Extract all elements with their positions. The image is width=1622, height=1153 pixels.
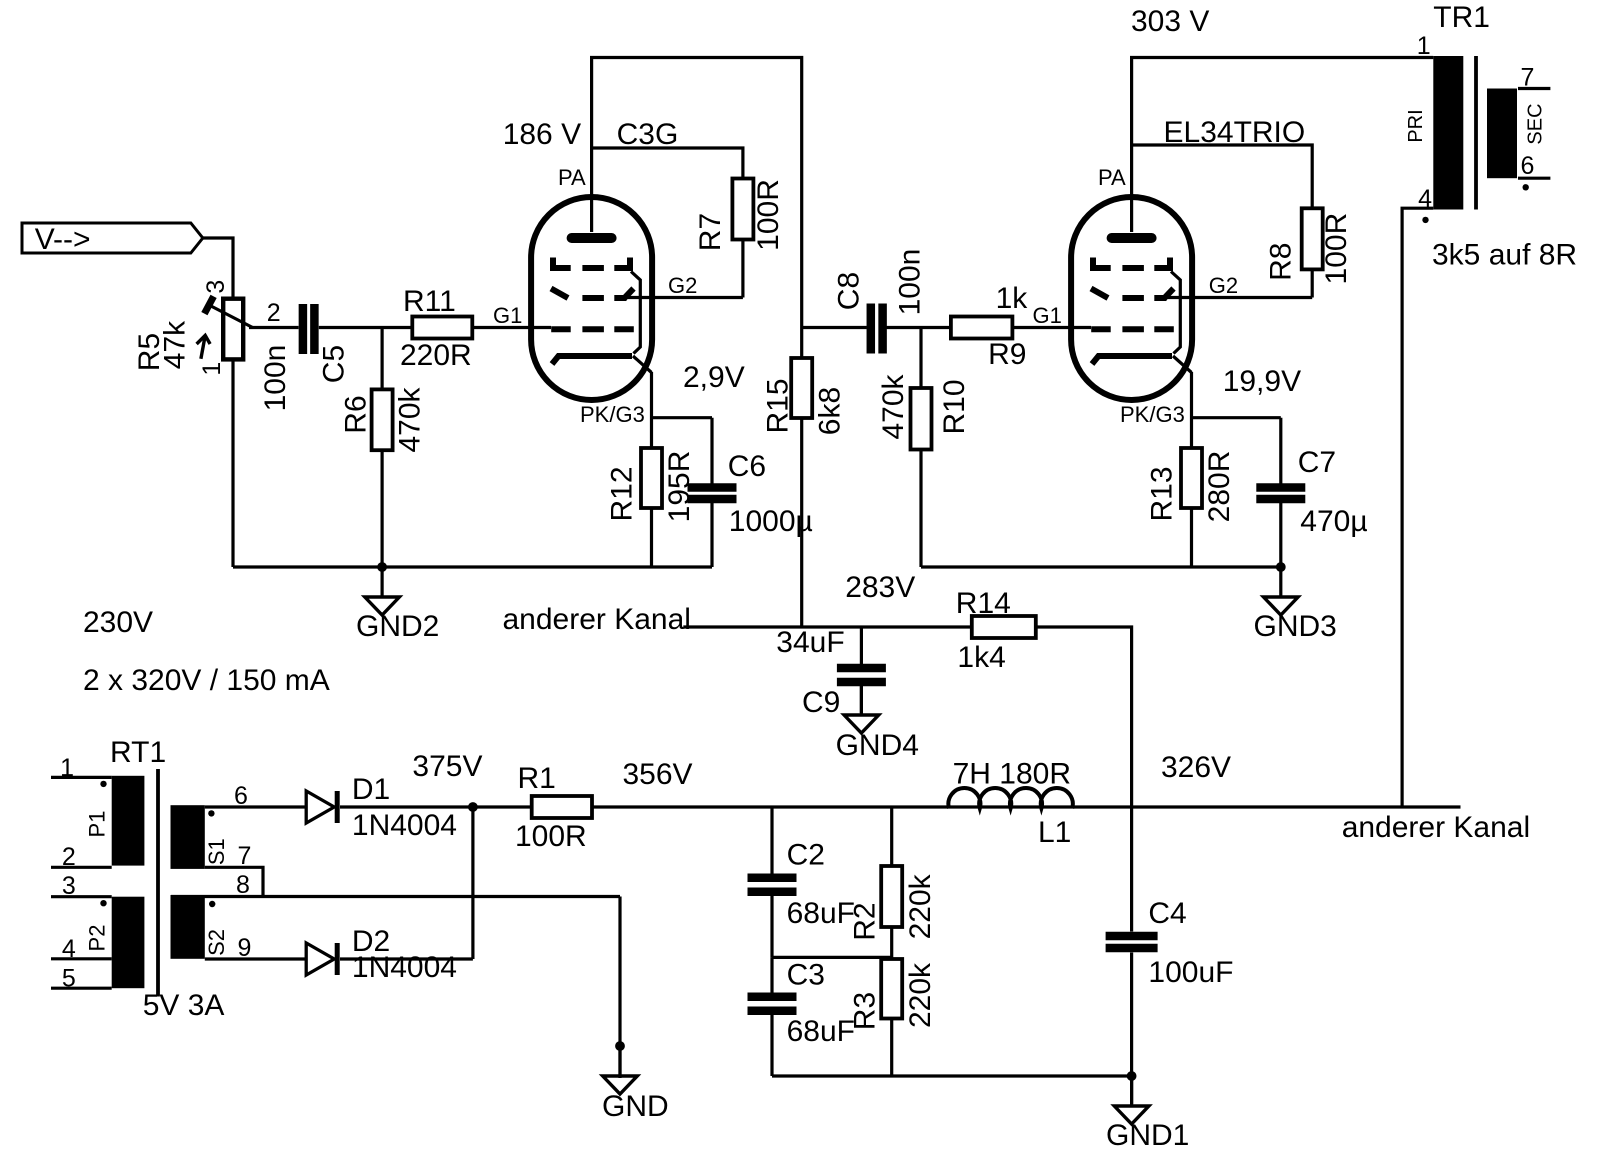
svg-text:220k: 220k: [904, 962, 937, 1028]
svg-text:470k: 470k: [393, 386, 426, 452]
svg-text:5: 5: [62, 965, 76, 993]
svg-text:C9: C9: [802, 686, 840, 719]
svg-text:375V: 375V: [412, 750, 482, 783]
svg-text:EL34TRIO: EL34TRIO: [1164, 116, 1306, 149]
svg-text:303 V: 303 V: [1131, 5, 1209, 38]
svg-text:7: 7: [238, 842, 252, 870]
svg-text:C3: C3: [787, 959, 825, 992]
svg-text:47k: 47k: [159, 320, 192, 369]
svg-text:PK/G3: PK/G3: [580, 402, 645, 427]
svg-text:3: 3: [202, 280, 230, 294]
svg-text:R7: R7: [694, 213, 727, 251]
svg-text:34uF: 34uF: [776, 626, 844, 659]
svg-text:anderer Kanal: anderer Kanal: [1342, 811, 1530, 844]
svg-text:230V: 230V: [83, 606, 153, 639]
svg-text:TR1: TR1: [1433, 1, 1490, 34]
svg-text:D1: D1: [352, 773, 390, 806]
svg-text:C7: C7: [1298, 446, 1336, 479]
svg-text:100R: 100R: [1320, 213, 1353, 285]
svg-text:C4: C4: [1148, 897, 1186, 930]
svg-text:P2: P2: [85, 925, 110, 952]
svg-text:280R: 280R: [1203, 451, 1236, 523]
svg-text:R2: R2: [849, 902, 882, 940]
svg-text:4: 4: [1418, 185, 1432, 213]
svg-text:6k8: 6k8: [813, 387, 846, 435]
svg-text:R9: R9: [988, 338, 1026, 371]
svg-text:3: 3: [62, 872, 76, 900]
svg-text:1000µ: 1000µ: [729, 505, 813, 538]
svg-text:R11: R11: [403, 285, 456, 318]
svg-text:G2: G2: [1209, 273, 1238, 298]
svg-text:S2: S2: [204, 929, 229, 956]
svg-text:220k: 220k: [904, 873, 937, 939]
svg-text:283V: 283V: [845, 571, 915, 604]
svg-text:100n: 100n: [259, 345, 292, 412]
svg-text:G1: G1: [1033, 303, 1062, 328]
svg-text:68uF: 68uF: [787, 897, 855, 930]
svg-text:C8: C8: [833, 272, 866, 310]
svg-text:C3G: C3G: [617, 118, 679, 151]
svg-text:L1: L1: [1038, 816, 1071, 849]
svg-text:1: 1: [1417, 32, 1431, 60]
svg-text:PA: PA: [1098, 165, 1126, 190]
svg-text:326V: 326V: [1161, 751, 1231, 784]
svg-text:470µ: 470µ: [1300, 505, 1367, 538]
svg-text:1k: 1k: [996, 282, 1029, 315]
svg-text:220R: 220R: [400, 339, 472, 372]
svg-text:8: 8: [236, 871, 250, 899]
svg-text:3k5 auf 8R: 3k5 auf 8R: [1432, 239, 1577, 272]
svg-text:GND3: GND3: [1254, 610, 1337, 643]
svg-text:1: 1: [198, 362, 226, 376]
svg-text:356V: 356V: [623, 758, 693, 791]
svg-text:6: 6: [234, 782, 248, 810]
svg-text:C5: C5: [318, 345, 351, 383]
svg-text:1k4: 1k4: [957, 641, 1005, 674]
svg-text:anderer Kanal: anderer Kanal: [503, 603, 691, 636]
svg-text:2,9V: 2,9V: [683, 361, 745, 394]
svg-text:7: 7: [1521, 64, 1535, 92]
svg-text:195R: 195R: [663, 451, 696, 523]
svg-text:100R: 100R: [752, 179, 785, 251]
svg-text:C6: C6: [728, 450, 766, 483]
svg-text:PA: PA: [558, 165, 586, 190]
svg-text:RT1: RT1: [110, 736, 166, 769]
svg-text:100n: 100n: [894, 249, 927, 316]
svg-text:R12: R12: [606, 466, 639, 521]
svg-text:R13: R13: [1146, 466, 1179, 521]
svg-text:1N4004: 1N4004: [352, 809, 457, 842]
svg-text:PRI: PRI: [1405, 109, 1427, 142]
svg-text:GND4: GND4: [836, 729, 919, 762]
svg-text:R10: R10: [938, 379, 971, 434]
svg-text:1: 1: [60, 754, 74, 782]
svg-text:19,9V: 19,9V: [1223, 365, 1301, 398]
svg-text:9: 9: [238, 934, 252, 962]
svg-text:470k: 470k: [877, 373, 910, 439]
svg-text:R6: R6: [340, 395, 373, 433]
svg-text:2 x 320V / 150 mA: 2 x 320V / 150 mA: [83, 664, 330, 697]
svg-text:PK/G3: PK/G3: [1120, 402, 1185, 427]
svg-text:R8: R8: [1265, 243, 1298, 281]
svg-text:P1: P1: [85, 811, 110, 838]
svg-text:6: 6: [1521, 152, 1535, 180]
svg-text:C2: C2: [787, 839, 825, 872]
svg-text:GND: GND: [602, 1090, 669, 1123]
svg-text:SEC: SEC: [1525, 103, 1547, 144]
svg-text:R15: R15: [762, 378, 795, 433]
svg-text:G2: G2: [668, 273, 697, 298]
svg-text:100uF: 100uF: [1148, 956, 1233, 989]
svg-text:2: 2: [62, 843, 76, 871]
svg-text:S1: S1: [204, 838, 229, 865]
svg-text:1N4004: 1N4004: [352, 951, 457, 984]
svg-text:V-->: V-->: [35, 223, 91, 256]
svg-text:100R: 100R: [515, 820, 587, 853]
svg-text:68uF: 68uF: [787, 1015, 855, 1048]
svg-text:G1: G1: [493, 303, 522, 328]
svg-text:GND2: GND2: [356, 610, 439, 643]
svg-text:R1: R1: [518, 762, 556, 795]
svg-text:2: 2: [267, 299, 281, 327]
svg-text:186 V: 186 V: [503, 118, 581, 151]
svg-text:7H 180R: 7H 180R: [953, 758, 1071, 791]
svg-text:GND1: GND1: [1106, 1119, 1189, 1152]
svg-text:R3: R3: [849, 992, 882, 1030]
svg-text:4: 4: [62, 935, 76, 963]
svg-text:R14: R14: [956, 587, 1011, 620]
svg-text:5V 3A: 5V 3A: [143, 989, 225, 1022]
